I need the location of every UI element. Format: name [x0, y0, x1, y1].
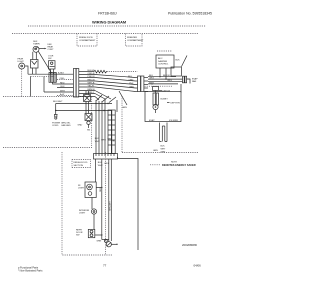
- svg-text:CONT: CONT: [48, 49, 55, 51]
- svg-text:BRN-W: BRN-W: [88, 89, 96, 91]
- wire line bus N: [56, 110, 112, 111]
- svg-text:FAN: FAN: [192, 80, 197, 83]
- timer cam diagonal wire: [38, 51, 51, 73]
- svg-text:CORD: CORD: [52, 125, 59, 127]
- door harness connector strips: [108, 110, 115, 154]
- svg-text:COMPARTMENT: COMPARTMENT: [127, 39, 144, 42]
- evaporator fan label: [192, 78, 198, 84]
- svg-text:WHT: WHT: [149, 82, 155, 84]
- svg-text:DEF HTR: DEF HTR: [171, 102, 181, 104]
- svg-text:FRESH FOOD: FRESH FOOD: [79, 37, 93, 39]
- ice maker plug connector: [160, 123, 168, 142]
- svg-text:Publication No. 5995518345: Publication No. 5995518345: [168, 12, 212, 16]
- cabinet ground wire run: [118, 157, 139, 250]
- svg-text:PNK-W: PNK-W: [88, 76, 96, 78]
- freezer enclosure left dashed: [121, 96, 123, 153]
- defrost timer label: [33, 41, 40, 46]
- svg-text:BLK-WHT: BLK-WHT: [53, 101, 63, 103]
- cabinet top dashed border: [12, 33, 198, 35]
- svg-text:BLK: BLK: [161, 146, 166, 148]
- svg-text:ORG: ORG: [60, 78, 65, 80]
- svg-text:BLK: BLK: [98, 162, 103, 164]
- refrigerator door switch label: [76, 230, 83, 237]
- defrost timer cam switch: [33, 46, 39, 52]
- wire lamp to bus: [25, 66, 28, 74]
- cabinet-door connector bar: [94, 154, 118, 160]
- power cord plug: [54, 104, 58, 120]
- lower enclosure label box: [72, 160, 91, 168]
- svg-text:PNK: PNK: [129, 83, 134, 85]
- svg-text:ORG: ORG: [101, 140, 106, 142]
- svg-text:YEL-R: YEL-R: [88, 86, 95, 88]
- freezer light label: [18, 59, 25, 64]
- svg-text:GND: GND: [78, 125, 83, 127]
- svg-text:FREEZER: FREEZER: [127, 37, 137, 39]
- svg-text:EVAP: EVAP: [149, 119, 155, 122]
- svg-text:GRN: GRN: [97, 241, 102, 243]
- fresh food enclosure bottom dashed: [3, 96, 84, 98]
- defrost heater label: [167, 102, 180, 104]
- svg-text:RED: RED: [130, 87, 135, 89]
- svg-text:GRN: GRN: [153, 150, 158, 152]
- svg-text:WHT: WHT: [161, 149, 167, 151]
- svg-text:LIGHT: LIGHT: [78, 188, 85, 190]
- legend note: [150, 162, 196, 168]
- wires right of J1 with labels: [79, 70, 138, 97]
- freezer enclosure bottom dashed: [122, 152, 198, 154]
- defrost heater element: [49, 73, 73, 85]
- svg-text:04/06: 04/06: [194, 263, 202, 267]
- lower door enclosure dashed: [62, 152, 112, 255]
- svg-text:FRT18HS6J: FRT18HS6J: [98, 12, 117, 16]
- thermostat dashed lead: [157, 50, 172, 52]
- fresh food light label: [78, 185, 85, 190]
- evaporator assembly box: [145, 84, 181, 122]
- evaporator fan motor: [171, 67, 190, 84]
- svg-text:ADC: ADC: [158, 57, 163, 60]
- svg-text:SN: SN: [87, 130, 90, 132]
- freezer compartment label box: [126, 34, 145, 47]
- svg-text:* Non-Illustrated Parts: * Non-Illustrated Parts: [18, 269, 43, 272]
- svg-text:DEF TH: DEF TH: [163, 91, 171, 93]
- wires below connector bar: [96, 159, 112, 242]
- freezer light lamp: [19, 63, 25, 69]
- drop wire labels: [95, 138, 117, 143]
- wire box to middle lamp: [91, 198, 93, 210]
- refrigerator door switch: [88, 229, 102, 237]
- dashed pnk wire segment: [31, 75, 56, 77]
- defrost thermostat stack: [153, 87, 159, 114]
- wire second vertical to enclosure bottom: [30, 76, 32, 96]
- svg-text:ORG-B: ORG-B: [88, 73, 96, 75]
- svg-text:BLK-W: BLK-W: [88, 70, 96, 72]
- svg-text:SECTION: SECTION: [74, 165, 84, 167]
- svg-text:GRN-WHT: GRN-WHT: [110, 200, 112, 211]
- svg-text:WHT: WHT: [95, 141, 101, 143]
- ice maker plug wire labels: [161, 146, 167, 154]
- svg-text:LIGHT: LIGHT: [18, 61, 25, 63]
- svg-text:WHT: WHT: [98, 165, 104, 167]
- svg-text:WHT-B: WHT-B: [88, 83, 95, 85]
- wire line bus L1: [56, 103, 112, 104]
- svg-text:GRN: GRN: [122, 107, 127, 109]
- defrost thermostat label: [159, 91, 171, 101]
- ground wire label GRN/YEL: [61, 123, 83, 128]
- svg-text:FRESH FOOD: FRESH FOOD: [74, 162, 88, 164]
- svg-text:COMPARTMENT: COMPARTMENT: [79, 39, 96, 42]
- boundary feed-through connector: [84, 91, 91, 114]
- lower wire labels: [98, 162, 109, 167]
- interior light label: [79, 210, 90, 215]
- freezer wires to fan: [145, 75, 183, 86]
- air damper control box: [156, 55, 174, 68]
- svg-text:ICE MKR: ICE MKR: [169, 120, 178, 122]
- svg-text:LIGHT: LIGHT: [79, 213, 86, 215]
- svg-text:ORG: ORG: [149, 78, 154, 80]
- svg-text:CONTROL: CONTROL: [158, 64, 169, 66]
- wires right of J2: [144, 78, 148, 92]
- svg-text:ORG: ORG: [129, 80, 134, 82]
- svg-text:BLK: BLK: [95, 138, 100, 140]
- svg-text:DAMPER: DAMPER: [158, 60, 168, 63]
- sensor diagonal lead: [182, 56, 188, 67]
- svg-text:BLK-W: BLK-W: [163, 75, 171, 77]
- svg-text:ORG: ORG: [167, 80, 172, 82]
- connector J2 housing: [138, 76, 144, 92]
- freezer door switch: [49, 61, 56, 74]
- svg-text:TIMER: TIMER: [33, 44, 40, 46]
- svg-text:WHT: WHT: [60, 91, 66, 93]
- svg-text:GRN: GRN: [161, 152, 166, 154]
- interior light lamp: [91, 209, 96, 230]
- svg-text:BLK: BLK: [176, 60, 181, 62]
- svg-text:BLK: BLK: [128, 76, 133, 78]
- wire ADC leads down: [159, 68, 166, 80]
- wire timer leads: [32, 52, 34, 60]
- power cord label: [52, 122, 60, 127]
- ground junction cluster: [102, 235, 118, 247]
- svg-text:WIRING DIAGRAM: WIRING DIAGRAM: [92, 19, 126, 24]
- svg-text:CAB GND: CAB GND: [61, 124, 71, 127]
- svg-text:GRN-YEL: GRN-YEL: [61, 123, 71, 125]
- svg-text:DENOTES ENERGY SAVER: DENOTES ENERGY SAVER: [162, 163, 196, 167]
- wire horizontal bus: [28, 73, 73, 75]
- fresh food light box: [85, 182, 103, 198]
- fresh food enclosure right dashed: [3, 97, 92, 148]
- svg-text:BI-MET: BI-MET: [161, 99, 169, 101]
- wire lamp vertical to enclosure bottom: [21, 69, 23, 97]
- svg-text:BLK: BLK: [61, 86, 66, 88]
- svg-text:RED-W: RED-W: [88, 80, 96, 82]
- dotted rule under title: [28, 25, 206, 27]
- svg-text:77: 77: [103, 263, 107, 267]
- timer terminal note arrow: [39, 44, 54, 51]
- svg-text:A-BLK: A-BLK: [58, 71, 65, 74]
- svg-text:ORG: ORG: [104, 163, 109, 165]
- svg-text:POWER: POWER: [52, 122, 60, 124]
- defrost timer motor box: [31, 60, 39, 75]
- svg-text:20020808D: 20020808D: [182, 243, 197, 247]
- svg-text:RED: RED: [60, 83, 65, 85]
- wires left of J2: [128, 76, 138, 92]
- grn callout diagonal: [119, 91, 127, 105]
- energy saver switch component: [85, 114, 92, 129]
- harness drop verticals: [96, 100, 117, 154]
- freezer door switch label: [48, 56, 54, 61]
- harness fan-out diagonals: [95, 75, 136, 103]
- fresh food compartment label box: [77, 34, 97, 47]
- wires left of J1 with labels: [44, 71, 73, 96]
- connector J1 housing: [73, 69, 78, 98]
